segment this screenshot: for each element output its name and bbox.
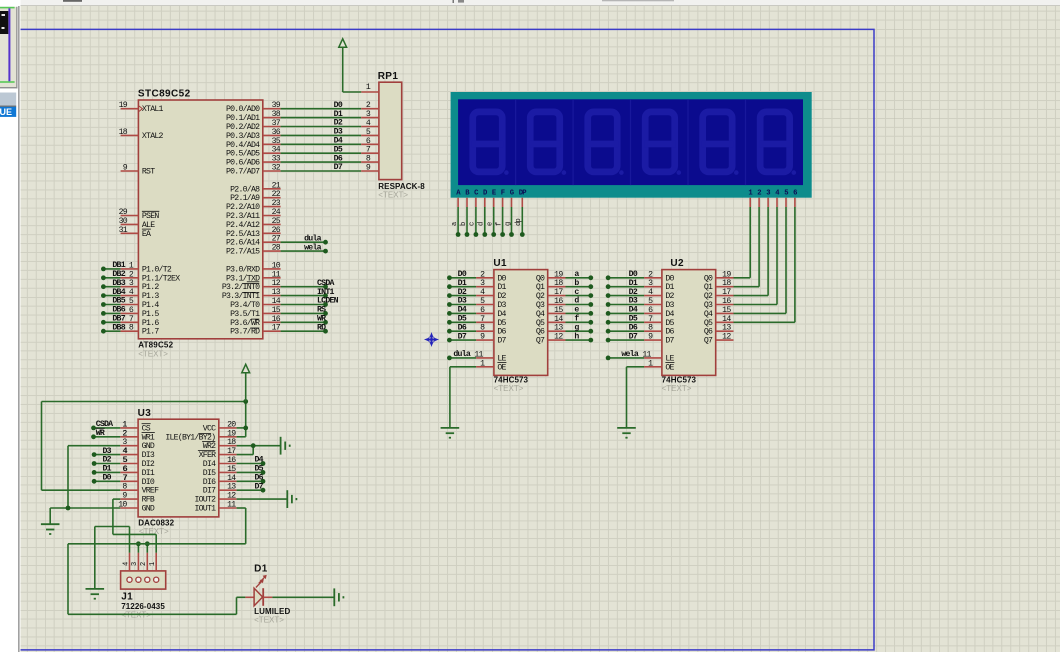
- svg-text:PSEN: PSEN: [142, 212, 159, 221]
- svg-text:28: 28: [272, 244, 281, 253]
- svg-text:17: 17: [272, 324, 281, 333]
- svg-text:D5: D5: [334, 145, 343, 154]
- svg-text:b: b: [460, 222, 468, 226]
- svg-text:14: 14: [227, 474, 236, 483]
- latch U2 74HC573 body: [662, 270, 716, 376]
- ground below U1: [441, 428, 460, 438]
- svg-text:IOUT2: IOUT2: [194, 496, 216, 505]
- svg-text:P1.4: P1.4: [142, 301, 159, 310]
- J1 pin3/pin2 to IOUT1 net: [137, 544, 139, 553]
- svg-text:D6: D6: [334, 154, 343, 163]
- svg-text:LCDEN: LCDEN: [317, 297, 339, 306]
- svg-text:GND: GND: [142, 505, 155, 514]
- svg-text:DI2: DI2: [142, 460, 155, 469]
- display digit segments: [473, 112, 503, 172]
- svg-text:Q6: Q6: [704, 328, 713, 337]
- MCU P2.0-P2.7 pins: [263, 188, 281, 190]
- resistor pack RP1 body: [379, 82, 402, 179]
- svg-text:P3.4/T0: P3.4/T0: [230, 300, 260, 310]
- U3 WR2/XFER to ground: [237, 445, 281, 447]
- svg-text:Q3: Q3: [536, 301, 545, 310]
- svg-text:D7: D7: [665, 337, 674, 346]
- U2 D0-D7 input pins: [644, 277, 662, 279]
- svg-text:RD: RD: [317, 323, 326, 332]
- U1 input net stubs D0-D7: [449, 277, 476, 279]
- svg-text:Q3: Q3: [704, 301, 713, 310]
- svg-text:F: F: [501, 189, 505, 197]
- svg-text:Q2: Q2: [536, 292, 545, 301]
- U2 OE wire to ground: [627, 366, 645, 368]
- svg-text:dp: dp: [515, 219, 523, 226]
- svg-text:19: 19: [119, 101, 128, 110]
- svg-text:DI0: DI0: [142, 478, 155, 487]
- display digit pins 1-6: [749, 198, 751, 207]
- svg-text:D1: D1: [665, 283, 674, 292]
- svg-text:UE: UE: [0, 107, 12, 117]
- RP1 pins 2-9: [361, 108, 379, 110]
- svg-text:22: 22: [272, 190, 281, 199]
- svg-text:18: 18: [722, 279, 731, 288]
- svg-text:16: 16: [554, 297, 563, 306]
- U1 LE dula net stub: [449, 357, 476, 359]
- svg-text:WR: WR: [96, 429, 105, 438]
- svg-text:DB7: DB7: [112, 315, 125, 324]
- selected item UE: [0, 107, 16, 117]
- svg-text:P1.0/T2: P1.0/T2: [142, 264, 172, 274]
- svg-text:D3: D3: [458, 297, 467, 306]
- svg-text:15: 15: [722, 306, 731, 315]
- svg-text:DI6: DI6: [203, 478, 216, 487]
- svg-text:34: 34: [272, 146, 281, 155]
- svg-text:13: 13: [272, 288, 281, 297]
- U1 output pin stubs: [548, 277, 566, 279]
- svg-text:P1.2: P1.2: [142, 283, 159, 292]
- ground terminal right of D1: [334, 588, 343, 606]
- svg-text:14: 14: [272, 297, 281, 306]
- svg-text:10: 10: [272, 261, 281, 270]
- svg-text:WR: WR: [317, 315, 326, 324]
- svg-text:D5: D5: [497, 319, 506, 328]
- svg-text:Q5: Q5: [536, 319, 545, 328]
- svg-text:12: 12: [272, 279, 281, 288]
- svg-text:P0.7/AD7: P0.7/AD7: [226, 167, 260, 177]
- svg-text:23: 23: [272, 199, 281, 208]
- svg-text:P2.1/A9: P2.1/A9: [230, 193, 260, 203]
- svg-text:RFB: RFB: [142, 496, 155, 505]
- svg-text:f: f: [495, 222, 503, 226]
- svg-text:Q0: Q0: [704, 274, 713, 283]
- svg-text:D6: D6: [458, 323, 467, 332]
- svg-text:INT1: INT1: [317, 288, 334, 297]
- svg-text:P1.3: P1.3: [142, 292, 159, 301]
- ground below J1 pin4 net: [86, 589, 105, 599]
- svg-text:D0: D0: [497, 274, 506, 283]
- svg-text:<TEXT>: <TEXT>: [494, 384, 524, 393]
- svg-text:D0: D0: [334, 101, 343, 110]
- svg-text:P1.6: P1.6: [142, 319, 159, 328]
- svg-text:P2.2/A10: P2.2/A10: [226, 202, 260, 212]
- svg-text:VCC: VCC: [203, 424, 216, 433]
- svg-text:D5: D5: [665, 319, 674, 328]
- MCU P1.0-P1.7 pins with DB1-DB8 net stubs: [103, 268, 120, 270]
- svg-text:15: 15: [554, 306, 563, 315]
- svg-text:Q4: Q4: [704, 310, 713, 319]
- svg-text:VREF: VREF: [142, 487, 159, 496]
- svg-text:36: 36: [272, 128, 281, 137]
- svg-text:12: 12: [722, 333, 731, 342]
- svg-text:12: 12: [554, 333, 563, 342]
- ILE BY2 overline: [199, 433, 212, 435]
- svg-text:16: 16: [722, 297, 731, 306]
- ruler tick fragments: [63, 0, 82, 2]
- J1 hole pin 4: [127, 577, 132, 582]
- svg-text:13: 13: [554, 324, 563, 333]
- svg-text:17: 17: [722, 288, 731, 297]
- U3 IOUT2 to ground: [237, 498, 288, 500]
- svg-text:P0.4/AD4: P0.4/AD4: [226, 140, 260, 150]
- U1 D0-D7 input pins: [476, 277, 494, 279]
- svg-text:AT89C52: AT89C52: [138, 341, 173, 350]
- svg-text:P0.2/AD2: P0.2/AD2: [226, 122, 260, 132]
- svg-text:D7: D7: [458, 332, 467, 341]
- svg-text:16: 16: [272, 315, 281, 324]
- svg-text:6: 6: [793, 189, 797, 197]
- svg-text:D3: D3: [629, 297, 638, 306]
- svg-text:DB8: DB8: [112, 323, 125, 332]
- svg-text:2: 2: [757, 189, 761, 197]
- U1 OE wire to ground: [450, 366, 476, 368]
- svg-text:D1: D1: [103, 465, 112, 474]
- svg-text:33: 33: [272, 155, 281, 164]
- object selector header: [0, 93, 16, 106]
- ground right of U3 (WR2/XFER): [281, 437, 290, 455]
- svg-text:D1: D1: [254, 564, 268, 575]
- J1 pin1 to RFB: [113, 533, 156, 535]
- svg-text:D6: D6: [629, 323, 638, 332]
- svg-text:DI5: DI5: [203, 469, 216, 478]
- svg-text:LE: LE: [497, 354, 506, 363]
- sheet border: [21, 29, 875, 650]
- svg-text:D3: D3: [497, 301, 506, 310]
- svg-text:dula: dula: [304, 233, 321, 243]
- svg-text:32: 32: [272, 164, 281, 173]
- svg-text:11: 11: [272, 270, 281, 279]
- svg-text:D5: D5: [458, 315, 467, 324]
- svg-text:<TEXT>: <TEXT>: [254, 615, 284, 624]
- svg-text:P3.5/T1: P3.5/T1: [230, 309, 260, 319]
- svg-text:37: 37: [272, 119, 281, 128]
- svg-text:D6: D6: [665, 328, 674, 337]
- svg-text:dula: dula: [453, 349, 470, 359]
- svg-text:c: c: [469, 222, 477, 226]
- svg-text:OE: OE: [497, 363, 506, 372]
- svg-text:D2: D2: [103, 456, 112, 465]
- svg-text:14: 14: [554, 315, 563, 324]
- svg-text:29: 29: [119, 208, 128, 217]
- svg-text:RP1: RP1: [378, 71, 399, 82]
- svg-text:24: 24: [272, 208, 281, 217]
- svg-text:P2.6/A14: P2.6/A14: [226, 238, 260, 248]
- svg-text:P0.1/AD1: P0.1/AD1: [226, 113, 260, 123]
- svg-text:IOUT1: IOUT1: [194, 505, 216, 514]
- svg-text:D3: D3: [334, 128, 343, 137]
- svg-text:WR1: WR1: [142, 433, 155, 442]
- ground left of J1: [41, 524, 60, 534]
- U3 pins: [120, 427, 138, 429]
- svg-text:20: 20: [227, 420, 236, 429]
- svg-text:19: 19: [554, 270, 563, 279]
- svg-text:U1: U1: [493, 258, 507, 269]
- svg-text:D0: D0: [458, 270, 467, 279]
- svg-text:Q1: Q1: [704, 283, 713, 292]
- svg-text:wela: wela: [304, 242, 321, 252]
- svg-text:D4: D4: [497, 310, 506, 319]
- svg-text:Q0: Q0: [536, 274, 545, 283]
- svg-text:DB1: DB1: [112, 261, 125, 270]
- svg-text:19: 19: [722, 270, 731, 279]
- svg-text:D2: D2: [334, 119, 343, 128]
- svg-text:g: g: [504, 222, 512, 226]
- U2 input net stubs D0-D7: [608, 277, 644, 279]
- ground below U2: [617, 428, 636, 438]
- svg-text:D1: D1: [334, 110, 343, 119]
- U3 GND(10) wire to ground: [50, 507, 120, 509]
- svg-text:LE: LE: [665, 354, 674, 363]
- svg-text:11: 11: [227, 501, 236, 510]
- svg-text:12: 12: [227, 492, 236, 501]
- svg-text:D1: D1: [629, 279, 638, 288]
- svg-text:17: 17: [227, 447, 236, 456]
- svg-text:D2: D2: [629, 288, 638, 297]
- svg-text:U2: U2: [670, 258, 684, 269]
- display inner navy panel: [458, 99, 803, 185]
- svg-text:D7: D7: [334, 163, 343, 172]
- svg-text:RST: RST: [142, 168, 155, 177]
- svg-text:D3: D3: [103, 447, 112, 456]
- U3 DI4-DI7 net stubs D4-D7: [237, 463, 263, 465]
- svg-text:P0.6/AD6: P0.6/AD6: [226, 158, 260, 168]
- DAC U3 DAC0832 body: [138, 419, 219, 517]
- overview preview blob: [0, 11, 8, 34]
- svg-text:P1.1/T2EX: P1.1/T2EX: [142, 273, 180, 283]
- svg-text:D4: D4: [629, 306, 638, 315]
- svg-text:P1.7: P1.7: [142, 328, 159, 337]
- svg-text:CSDA: CSDA: [96, 420, 113, 429]
- svg-text:ALE: ALE: [142, 221, 155, 230]
- svg-text:21: 21: [272, 181, 281, 190]
- svg-text:DI1: DI1: [142, 469, 155, 478]
- svg-text:G: G: [510, 189, 514, 197]
- svg-text:XTAL1: XTAL1: [142, 105, 164, 114]
- LED cathode wire to terminal: [272, 596, 334, 598]
- svg-text:27: 27: [272, 235, 281, 244]
- svg-text:15: 15: [227, 465, 236, 474]
- svg-text:GND: GND: [142, 442, 155, 451]
- svg-text:D0: D0: [665, 274, 674, 283]
- svg-text:<TEXT>: <TEXT>: [662, 384, 692, 393]
- svg-text:13: 13: [722, 324, 731, 333]
- svg-text:D7: D7: [629, 332, 638, 341]
- svg-text:XTAL2: XTAL2: [142, 132, 164, 141]
- J1 hole pin 2: [145, 577, 150, 582]
- svg-text:Q2: Q2: [704, 292, 713, 301]
- svg-text:d: d: [478, 222, 486, 226]
- U3 IOUT1 wire: [237, 507, 246, 509]
- svg-text:P2.0/A8: P2.0/A8: [230, 184, 260, 194]
- svg-text:14: 14: [722, 315, 731, 324]
- U2 output pin stubs: [716, 277, 734, 279]
- MCU P3.0-P3.7 pins with net stubs: [263, 268, 281, 270]
- svg-text:OE: OE: [665, 363, 674, 372]
- svg-text:D4: D4: [334, 137, 343, 146]
- svg-text:25: 25: [272, 217, 281, 226]
- svg-text:EA: EA: [142, 230, 151, 239]
- svg-text:DB6: DB6: [112, 306, 125, 315]
- U1 OE pin: [476, 366, 494, 368]
- IOUT1 / D1 net long route: [68, 543, 246, 545]
- svg-text:DI4: DI4: [203, 460, 216, 469]
- svg-text:D2: D2: [458, 288, 467, 297]
- MCU P0.0-P0.7 pins, D0-D7 wires to RP1: [263, 108, 281, 110]
- svg-text:18: 18: [554, 279, 563, 288]
- ground right of U3 (IOUT2): [287, 490, 296, 508]
- svg-text:Q4: Q4: [536, 310, 545, 319]
- svg-text:D5: D5: [255, 465, 264, 474]
- svg-text:<TEXT>: <TEXT>: [378, 191, 408, 200]
- svg-text:P1.5: P1.5: [142, 310, 159, 319]
- svg-text:D4: D4: [255, 456, 264, 465]
- svg-text:18: 18: [227, 438, 236, 447]
- MCU left pins XTAL1 XTAL2 RST PSEN ALE EA: [121, 108, 139, 110]
- svg-text:1: 1: [149, 562, 157, 566]
- svg-text:D6: D6: [497, 328, 506, 337]
- svg-text:19: 19: [227, 429, 236, 438]
- connector J1 body: [121, 571, 166, 589]
- latch U1 74HC573 body: [494, 270, 548, 376]
- svg-text:WR2: WR2: [203, 442, 216, 451]
- svg-text:CS: CS: [142, 424, 151, 433]
- svg-text:13: 13: [227, 483, 236, 492]
- svg-text:Q7: Q7: [536, 337, 545, 346]
- svg-text:Q7: Q7: [704, 337, 713, 346]
- power symbol above U3: [242, 364, 250, 372]
- svg-text:31: 31: [119, 226, 128, 235]
- svg-text:P3.0/RXD: P3.0/RXD: [226, 264, 260, 274]
- svg-text:U3: U3: [138, 408, 152, 419]
- left sidebar: overview panel: [0, 0, 21, 652]
- svg-text:DB2: DB2: [112, 270, 125, 279]
- J1 pin4 to ground: [129, 527, 131, 553]
- svg-text:D7: D7: [497, 337, 506, 346]
- svg-text:2: 2: [140, 562, 148, 566]
- svg-text:D1: D1: [497, 283, 506, 292]
- svg-text:Q6: Q6: [536, 328, 545, 337]
- display segment pins a-dp: [457, 198, 459, 207]
- svg-text:17: 17: [554, 288, 563, 297]
- U2 LE pin: [644, 357, 662, 359]
- U3 VREF wire + left power rail: [42, 489, 121, 491]
- MCU U? STC89C52 body: [138, 100, 262, 339]
- svg-text:Q5: Q5: [704, 319, 713, 328]
- svg-text:Q1: Q1: [536, 283, 545, 292]
- svg-text:<TEXT>: <TEXT>: [138, 350, 168, 359]
- svg-text:a: a: [451, 222, 459, 226]
- svg-text:CSDA: CSDA: [317, 279, 334, 288]
- svg-text:15: 15: [272, 306, 281, 315]
- wela net stub: [281, 250, 326, 252]
- svg-text:4: 4: [122, 562, 130, 566]
- svg-text:D5: D5: [629, 315, 638, 324]
- LED D1: [245, 596, 254, 598]
- svg-text:D0: D0: [103, 474, 112, 483]
- svg-text:18: 18: [119, 128, 128, 137]
- J1 hole pin 1: [154, 577, 159, 582]
- svg-text:30: 30: [119, 217, 128, 226]
- svg-text:DI3: DI3: [142, 451, 155, 460]
- svg-text:3: 3: [766, 189, 770, 197]
- svg-text:D1: D1: [458, 279, 467, 288]
- U2 OE pin: [644, 366, 662, 368]
- U2 LE wela net stub: [608, 357, 644, 359]
- U3 GND(3) wire down-left: [68, 445, 120, 447]
- RP1 pin 1 + power wire: [361, 91, 379, 93]
- U3 RFB wire: [113, 498, 120, 500]
- svg-text:RS: RS: [317, 306, 326, 315]
- svg-text:STC89C52: STC89C52: [138, 89, 191, 100]
- svg-text:3: 3: [131, 562, 139, 566]
- svg-text:39: 39: [272, 101, 281, 110]
- U3 WR1 net WR: [94, 436, 121, 438]
- svg-text:P0.0/AD0: P0.0/AD0: [226, 104, 260, 114]
- svg-text:P0.3/AD3: P0.3/AD3: [226, 131, 260, 141]
- svg-text:P0.5/AD5: P0.5/AD5: [226, 149, 260, 159]
- svg-text:wela: wela: [621, 349, 638, 359]
- U1 LE pin: [476, 357, 494, 359]
- dula net stub: [281, 241, 326, 243]
- svg-text:DI7: DI7: [203, 487, 216, 496]
- svg-text:D0: D0: [629, 270, 638, 279]
- svg-text:DB3: DB3: [112, 279, 125, 288]
- svg-text:38: 38: [272, 110, 281, 119]
- U1 output nets a-h: [566, 277, 591, 279]
- svg-text:D4: D4: [458, 306, 467, 315]
- power symbol above RP1: [339, 39, 347, 47]
- J1 hole pin 3: [136, 577, 141, 582]
- svg-text:P2.4/A12: P2.4/A12: [226, 220, 260, 230]
- svg-text:e: e: [487, 222, 495, 226]
- display module outer teal frame: [451, 92, 812, 198]
- svg-text:P2.5/A13: P2.5/A13: [226, 229, 260, 239]
- svg-text:P2.7/A15: P2.7/A15: [226, 247, 260, 257]
- svg-text:D2: D2: [665, 292, 674, 301]
- svg-text:26: 26: [272, 226, 281, 235]
- LED emission arrows: [259, 577, 265, 583]
- svg-text:5: 5: [784, 189, 788, 197]
- svg-text:D3: D3: [665, 301, 674, 310]
- U3 VCC/ILE power connection: [237, 427, 246, 429]
- svg-text:D7: D7: [255, 482, 264, 491]
- svg-text:16: 16: [227, 456, 236, 465]
- svg-text:D2: D2: [497, 292, 506, 301]
- svg-text:D4: D4: [665, 310, 674, 319]
- U3 DI3-DI0 net stubs D3-D0: [94, 454, 120, 456]
- svg-text:D6: D6: [255, 474, 264, 483]
- svg-text:P2.3/A11: P2.3/A11: [226, 211, 260, 221]
- svg-text:XFER: XFER: [199, 451, 216, 460]
- svg-text:DB5: DB5: [112, 297, 125, 306]
- svg-text:35: 35: [272, 137, 281, 146]
- svg-text:DB4: DB4: [112, 288, 125, 297]
